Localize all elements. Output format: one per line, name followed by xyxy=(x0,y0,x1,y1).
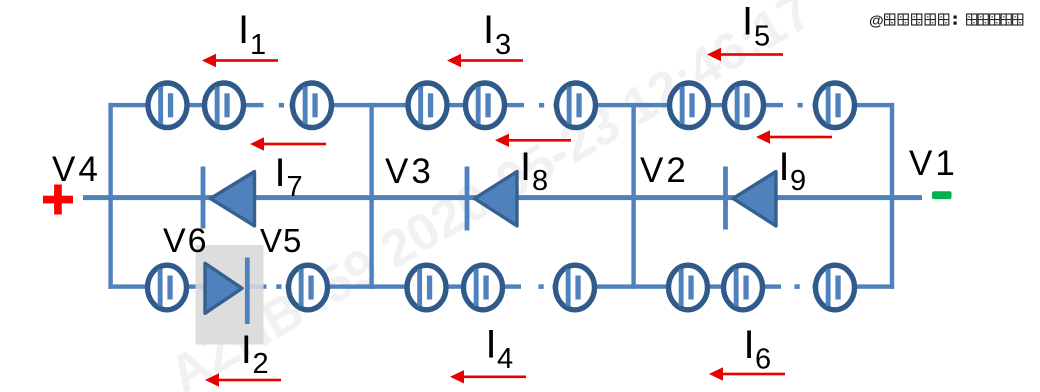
cell B1 xyxy=(148,265,187,310)
svg-text:V3: V3 xyxy=(385,152,434,191)
plus terminal xyxy=(43,185,73,215)
arrow mid group1 xyxy=(250,137,326,150)
svg-text:7: 7 xyxy=(287,171,303,203)
arrow I5 xyxy=(707,48,783,61)
wire top row segment 1 xyxy=(108,103,263,107)
diode V6 cathode bar xyxy=(245,258,250,325)
cell T4 xyxy=(408,83,447,128)
diode D1 triangle xyxy=(211,172,255,226)
wire bottom row stub after diode xyxy=(249,284,267,288)
svg-text:V4: V4 xyxy=(52,150,101,189)
svg-text:V1: V1 xyxy=(909,144,958,183)
svg-text:2: 2 xyxy=(253,348,269,380)
diode D3 triangle xyxy=(733,172,776,226)
wire middle bus xyxy=(83,195,922,200)
svg-text:I: I xyxy=(744,323,755,367)
wire top row segment 4 xyxy=(813,103,895,107)
arrow mid group3 xyxy=(756,130,832,143)
svg-text:@: @ xyxy=(869,13,884,30)
wire bottom row dot 3 xyxy=(795,284,800,289)
wire right vertical xyxy=(890,103,894,289)
cell B4 xyxy=(464,265,503,310)
cell T9 xyxy=(816,83,855,128)
cell T2 xyxy=(205,83,244,128)
cell T5 xyxy=(466,83,505,128)
wire bottom row dot 1 xyxy=(276,284,281,289)
arrow mid group2 xyxy=(495,134,571,147)
svg-text:5: 5 xyxy=(754,21,770,53)
wire V3 vertical xyxy=(369,103,373,289)
minus terminal xyxy=(932,191,952,199)
cell B3 xyxy=(407,265,446,310)
svg-text:V6: V6 xyxy=(163,222,209,260)
wire V2 vertical xyxy=(631,103,635,289)
arrow I2 xyxy=(205,373,281,386)
svg-text:I: I xyxy=(520,145,531,189)
cell T1 xyxy=(148,83,187,128)
svg-text:V2: V2 xyxy=(640,151,689,190)
cell B6 xyxy=(669,265,708,310)
wire top row dot 3 xyxy=(798,103,803,108)
cell B8 xyxy=(816,265,855,310)
diode D1 cathode bar xyxy=(201,167,206,229)
cell T7 xyxy=(670,83,709,128)
arrow I1 xyxy=(202,54,278,67)
cell B2 xyxy=(289,265,328,310)
diode D2 cathode bar xyxy=(465,167,470,231)
svg-text:I: I xyxy=(779,145,790,189)
cell T6 xyxy=(557,83,596,128)
svg-text:4: 4 xyxy=(497,343,513,375)
svg-text:I: I xyxy=(275,151,286,195)
wechat watermark xyxy=(869,13,1023,30)
arrow I4 xyxy=(450,370,526,383)
svg-text:I: I xyxy=(241,328,252,372)
wire top row segment 2 xyxy=(290,103,525,107)
svg-text:3: 3 xyxy=(495,29,511,61)
cell B7 xyxy=(724,265,763,310)
wire bottom row dot 2 xyxy=(539,284,544,289)
svg-text:9: 9 xyxy=(790,165,806,197)
cell T8 xyxy=(725,83,764,128)
svg-text:I: I xyxy=(742,0,753,44)
svg-text:1: 1 xyxy=(250,29,266,61)
svg-text:I: I xyxy=(238,8,249,52)
svg-text:6: 6 xyxy=(755,344,771,376)
arrow I6 xyxy=(709,367,785,380)
wire left vertical xyxy=(108,103,112,289)
diode V6 triangle xyxy=(205,263,242,313)
svg-text:I: I xyxy=(483,8,494,52)
svg-text:I: I xyxy=(486,323,497,367)
wire bottom row segment 1 xyxy=(108,284,206,288)
diode D3 cathode bar xyxy=(723,167,728,230)
svg-text:8: 8 xyxy=(532,165,548,197)
wire top row dot 1 xyxy=(279,103,284,108)
cell T3 xyxy=(293,83,332,128)
diode D2 triangle xyxy=(475,172,518,226)
wire bottom row segment 3 xyxy=(553,284,782,288)
cell B5 xyxy=(556,265,595,310)
wire top row dot 2 xyxy=(539,103,544,108)
svg-text:V5: V5 xyxy=(260,222,302,259)
highlight box around diode V6/V5 xyxy=(196,245,264,345)
wire bottom row segment 4 xyxy=(813,284,895,288)
wire bottom row segment 2 xyxy=(286,284,522,288)
wire top row segment 3 xyxy=(554,103,784,107)
arrow I3 xyxy=(447,54,523,67)
